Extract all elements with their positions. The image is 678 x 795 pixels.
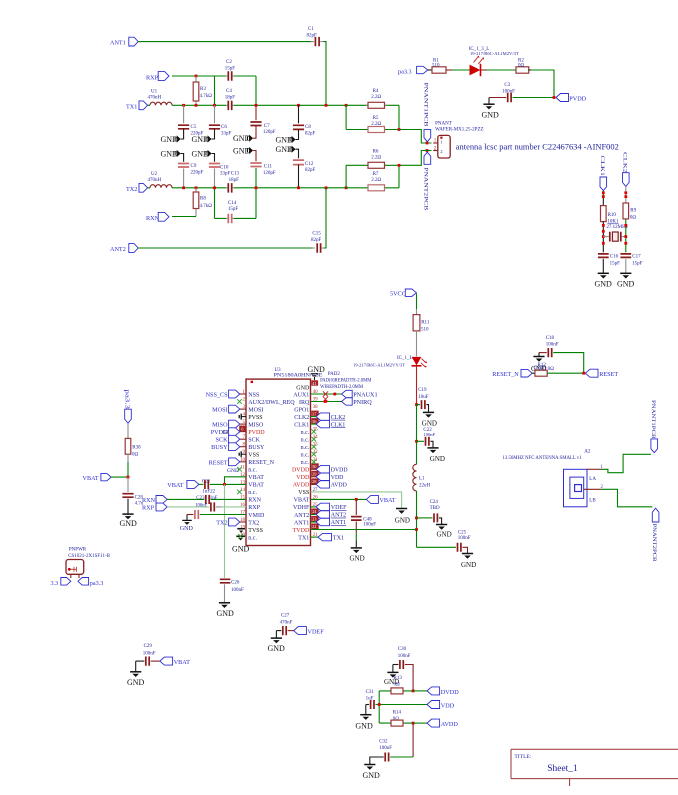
svg-text:1uF: 1uF (366, 696, 374, 701)
ground C31 (355, 705, 373, 731)
svg-text:100nF: 100nF (363, 523, 376, 528)
ground C7 (233, 134, 253, 143)
svg-text:C5: C5 (191, 125, 197, 130)
port ANT2 (110, 244, 138, 253)
svg-text:U2: U2 (151, 172, 158, 177)
capacitor C17 15pF (620, 254, 642, 273)
wire ANT1 stub (311, 521, 317, 523)
ground C8 (276, 135, 296, 144)
wire antenna pin2 to PNANT2PCB (601, 489, 652, 507)
svg-text:ANT1: ANT1 (110, 40, 126, 47)
svg-text:VDEF: VDEF (331, 505, 347, 511)
ground C18 (531, 353, 546, 373)
svg-text:WIREPADTH-2.0MM: WIREPADTH-2.0MM (320, 385, 364, 390)
port PNANT2PCB right (vertical) (651, 508, 659, 562)
port pa3.3 (jumper out) (78, 578, 103, 587)
port VBAT bottom (160, 657, 190, 666)
ground pin 11 (227, 467, 242, 474)
wire R38 to VBAT node (127, 454, 129, 477)
svg-text:120pF: 120pF (263, 171, 276, 176)
svg-text:C23: C23 (196, 496, 205, 501)
junction PVDD node (553, 96, 556, 99)
svg-text:TVDD: TVDD (293, 528, 310, 534)
pin 22 TVDD (293, 524, 319, 534)
svg-text:R14: R14 (393, 711, 402, 716)
svg-text:15pF: 15pF (632, 261, 643, 266)
junction dots TX1 line (182, 104, 347, 107)
svg-text:C8: C8 (305, 125, 311, 130)
svg-text:0Ω: 0Ω (630, 216, 637, 221)
svg-text:4.7u: 4.7u (135, 502, 144, 507)
svg-text:82pF: 82pF (305, 131, 316, 136)
resistor R10 (601, 206, 620, 225)
svg-text:GND: GND (296, 386, 310, 392)
connector PNANT WAFER-MX1.25-2PZZ (435, 122, 483, 158)
junction DVDD node (412, 690, 415, 693)
svg-text:470nH: 470nH (148, 96, 162, 101)
svg-text:TVSS: TVSS (248, 528, 263, 534)
svg-text:15pF: 15pF (228, 207, 239, 212)
port MOSI (212, 405, 240, 413)
wire CLK2 stub (311, 416, 317, 418)
ground pin 19 TVSS (237, 529, 245, 533)
svg-text:100nF: 100nF (231, 588, 244, 593)
svg-text:470nH: 470nH (148, 178, 162, 183)
svg-text:R12: R12 (538, 363, 547, 368)
svg-text:PVDD: PVDD (211, 429, 228, 436)
pin 2 (433, 147, 438, 152)
junction R5 right (398, 128, 401, 131)
svg-text:DVDD: DVDD (331, 468, 348, 474)
svg-text:AVDD: AVDD (441, 721, 459, 728)
wire R5 node to connector pin1 (399, 130, 432, 144)
svg-text:GND: GND (180, 526, 194, 532)
port VDEF bottom (294, 627, 325, 636)
ground C26 (217, 603, 235, 618)
svg-text:C2: C2 (226, 60, 232, 65)
capacitor C25 100nF (458, 531, 471, 553)
svg-text:C4: C4 (226, 89, 232, 94)
wire pa3.3 to R38 (127, 423, 129, 438)
port DVDD bottom (427, 687, 459, 696)
junction dots CLK1 column (602, 224, 605, 245)
capacitor C22 100nF (417, 428, 436, 447)
svg-text:L1: L1 (419, 477, 425, 482)
svg-text:33pF: 33pF (220, 172, 231, 177)
svg-text:n.c.: n.c. (248, 490, 257, 496)
capacitor C21 1nF (199, 479, 246, 494)
svg-text:C32: C32 (379, 740, 388, 745)
wire AVDD stub (311, 483, 317, 485)
svg-text:R7: R7 (373, 172, 379, 177)
svg-text:0Ω: 0Ω (394, 682, 401, 687)
pin 5 MISO (240, 420, 264, 428)
svg-text:C24: C24 (430, 500, 439, 505)
port VBAT right (366, 495, 395, 504)
svg-text:GPO1: GPO1 (294, 407, 309, 413)
junction C48 top (355, 498, 358, 501)
svg-text:VBAT: VBAT (248, 475, 264, 481)
svg-text:RXP: RXP (146, 74, 159, 81)
junction dots CLK1 top (602, 191, 605, 198)
svg-text:n.c.: n.c. (248, 535, 257, 541)
pin 8 BUSY (240, 443, 265, 451)
wire VBAT vertical to C26 (224, 484, 226, 578)
svg-text:1nF22: 1nF22 (202, 489, 215, 494)
wire C1 to TX1 line (324, 42, 327, 106)
resistor R7 2.2 (346, 172, 399, 191)
svg-text:C13: C13 (231, 172, 240, 177)
LED IC_1_3_L 19-217/R6C-AL1M2V/3T (469, 47, 519, 76)
pin 17 VMID (240, 511, 265, 519)
port RXN (row15) (142, 496, 167, 505)
port PNIRQ (342, 398, 373, 406)
svg-text:GND: GND (127, 678, 145, 687)
svg-text:0Ω: 0Ω (132, 452, 139, 457)
wire ANT2 stub (311, 514, 317, 516)
wire 5VCC to R11 (416, 294, 418, 315)
wire VDEF stub (311, 506, 317, 508)
ground C22 (427, 448, 445, 463)
no-connect pin 33 (312, 444, 317, 449)
svg-text:0Ω: 0Ω (518, 64, 525, 69)
pin 41 PAD with ground (296, 365, 325, 392)
svg-text:SCK: SCK (248, 438, 260, 444)
svg-text:100nF: 100nF (195, 503, 207, 508)
wire VBAT port to node (111, 476, 128, 478)
svg-text:VBAT: VBAT (294, 498, 310, 504)
pin 16 RXP (240, 503, 261, 511)
pin 37 CLK2 (294, 411, 318, 421)
svg-text:18pF: 18pF (229, 178, 240, 183)
capacitor C31 1uF (366, 690, 427, 709)
svg-text:15pF: 15pF (225, 67, 236, 72)
svg-text:C29: C29 (144, 644, 153, 649)
wire DVDD stub (311, 468, 317, 470)
capacitor C2 15pF (215, 60, 257, 105)
svg-text:RESET_N: RESET_N (492, 371, 519, 378)
svg-text:LB: LB (589, 498, 596, 503)
svg-text:ANT1: ANT1 (294, 520, 309, 526)
resistor R12 0ohm (532, 363, 554, 376)
svg-text:82pF: 82pF (311, 238, 322, 243)
svg-text:C18: C18 (546, 336, 555, 341)
port PNANT2PCB (vertical) (423, 152, 431, 211)
svg-text:100nF: 100nF (546, 343, 559, 348)
svg-text:C9: C9 (191, 164, 197, 169)
svg-text:n.c.: n.c. (301, 445, 310, 451)
svg-text:100nF: 100nF (423, 432, 435, 437)
wire VSS pin27 to ground (311, 492, 402, 508)
pin 6 PVDD (239, 426, 265, 436)
no-connect pin 34 (312, 437, 317, 442)
junction VDD node (378, 703, 381, 706)
ground C30 (384, 665, 399, 687)
capacitor C19 10uF (417, 388, 429, 412)
svg-text:A2: A2 (584, 450, 591, 455)
wire TX1 stub (311, 536, 319, 538)
label PAD2 texts (320, 372, 372, 390)
svg-text:PNPWR: PNPWR (69, 547, 87, 552)
svg-text:RXN: RXN (142, 497, 156, 504)
pin 26 VBAT (294, 495, 318, 503)
port ANT2 (316, 511, 346, 519)
port ANT1 (110, 37, 138, 46)
pin 36 CLK1 (294, 418, 318, 428)
svg-text:IRQ: IRQ (299, 400, 310, 406)
ground C17 (617, 273, 635, 288)
svg-text:BUSY: BUSY (211, 444, 228, 451)
port CLK1 (vertical) (599, 156, 606, 191)
wire L1 column bottom to C25 (417, 546, 457, 548)
port pa3.3 (vertical) (124, 389, 132, 423)
port RESET (585, 369, 618, 378)
port PNAUX1 (342, 390, 378, 398)
svg-text:C30: C30 (398, 647, 407, 652)
wire pin12 VBAT elbow (225, 477, 247, 485)
svg-text:RESET: RESET (209, 459, 228, 466)
svg-text:PNANT: PNANT (435, 122, 452, 127)
svg-text:VSS: VSS (248, 453, 259, 459)
port ANT1 (316, 518, 346, 526)
pin 28 AVDD (293, 478, 319, 488)
resistor R14 0ohm (379, 711, 413, 726)
pin 7 SCK (240, 435, 261, 443)
junction TVDD column (415, 528, 418, 531)
svg-text:CS1021-2X1SF11-B: CS1021-2X1SF11-B (68, 554, 110, 559)
port PNANT1PCB right (vertical) (650, 400, 657, 453)
svg-text:MISO: MISO (248, 422, 264, 428)
svg-text:R4: R4 (373, 89, 379, 94)
svg-text:TX2: TX2 (216, 520, 227, 527)
capacitor C9 220pF (178, 154, 204, 188)
svg-text:C10: C10 (220, 165, 229, 170)
inductor L1 22uH (413, 464, 431, 491)
pin 10 RESET_N (240, 458, 275, 466)
port DVDD (316, 466, 348, 474)
svg-text:antenna lcsc part number C2246: antenna lcsc part number C22467634 -AINF… (456, 143, 619, 152)
port VDD bottom (427, 701, 455, 710)
svg-text:0Ω: 0Ω (548, 367, 555, 372)
wire C15 to TX2 line (324, 188, 326, 248)
svg-text:GND: GND (395, 516, 410, 524)
svg-text:TBD: TBD (430, 506, 440, 511)
wire to L1 (416, 441, 418, 464)
capacitor C8 82pF (293, 105, 316, 139)
capacitor C5 220pF (178, 105, 204, 139)
no-connect X AUX1 (323, 391, 328, 396)
LED IC_1_L 19-217/R6C-AL1M2VY/3T (353, 356, 427, 368)
svg-text:RXP: RXP (248, 505, 260, 511)
note antenna lcsc part number (456, 143, 619, 152)
capacitor C22b 100nF (RXP series) (167, 502, 246, 511)
title block frame (511, 749, 678, 786)
svg-text:VBAT: VBAT (83, 475, 99, 482)
resistor R38 0ohm (125, 438, 141, 457)
port RXP (row16) (142, 503, 167, 512)
svg-text:DVDD: DVDD (292, 468, 310, 474)
port RESET (209, 458, 240, 466)
svg-text:PNAUX1: PNAUX1 (353, 391, 377, 398)
ground C32 (363, 765, 381, 781)
capacitor C13 18pF (226, 172, 240, 193)
svg-text:AUX2/DWL_REQ: AUX2/DWL_REQ (248, 400, 295, 406)
capacitor C4 18pF (225, 89, 236, 110)
ground pin 4 PVSS (239, 414, 246, 420)
svg-text:C17: C17 (632, 254, 641, 259)
svg-text:CLK2: CLK2 (621, 152, 626, 174)
svg-text:TX2: TX2 (126, 186, 137, 193)
svg-text:MISO: MISO (212, 422, 228, 429)
svg-text:GND: GND (268, 644, 286, 653)
svg-text:510: 510 (421, 328, 429, 333)
pin 33 n.c. (301, 443, 318, 451)
pin 2 AUX2/DWL_REQ (243, 398, 296, 406)
no-connect pin 32 (312, 452, 317, 457)
svg-text:TX1: TX1 (333, 534, 344, 541)
svg-text:1nF: 1nF (210, 496, 218, 501)
capacitor C14 15pF (215, 188, 257, 223)
ground C10 (192, 149, 212, 158)
capacitor C6 33pF (209, 105, 232, 139)
svg-text:SCK: SCK (216, 437, 229, 444)
ground C9 (161, 149, 181, 158)
svg-text:GND: GND (232, 545, 250, 554)
svg-text:AUX1: AUX1 (293, 392, 309, 398)
junction R6 right (398, 164, 401, 167)
svg-text:R3: R3 (200, 87, 206, 92)
ground C27 (268, 631, 286, 653)
svg-text:100nF: 100nF (379, 746, 392, 751)
svg-text:GND: GND (482, 111, 500, 120)
junction RESET node (582, 372, 585, 375)
pin 2 antenna (584, 485, 604, 490)
capacitor C32 100nF (370, 723, 413, 764)
capacitor C7 120pF (250, 105, 276, 138)
port RXN (146, 212, 196, 222)
no-connect pin 31 (312, 460, 317, 465)
svg-text:VBAT: VBAT (167, 482, 183, 489)
svg-text:BUSY: BUSY (248, 445, 265, 451)
no-connect X IRQ (323, 397, 328, 402)
svg-text:AVDD: AVDD (293, 483, 310, 489)
wire pa3.3 to R1 (428, 69, 432, 71)
junction pin1 (426, 142, 429, 145)
svg-text:C7: C7 (264, 124, 270, 129)
svg-text:MOSI: MOSI (248, 407, 263, 413)
wire CLK1 column (602, 191, 604, 206)
resistor R11 510 (413, 315, 430, 333)
svg-text:R38: R38 (132, 445, 141, 450)
svg-text:n.c.: n.c. (248, 468, 257, 474)
junction dots TX2 line (182, 186, 347, 189)
svg-text:120pF: 120pF (263, 130, 276, 135)
svg-text:NSS: NSS (248, 392, 259, 398)
capacitor C18 100nF (539, 336, 584, 373)
svg-text:U3: U3 (275, 368, 282, 373)
svg-text:C12: C12 (305, 162, 314, 167)
capacitor C10 33pF (209, 154, 231, 188)
pin 31 n.c. (301, 458, 318, 466)
svg-text:GND: GND (461, 561, 476, 569)
port AVDD bottom (427, 719, 458, 728)
svg-text:C21: C21 (202, 479, 211, 484)
port SCK (216, 435, 240, 443)
resistor R1 510 (432, 59, 446, 74)
svg-text:C3: C3 (504, 83, 510, 88)
port pa3.3 (398, 66, 428, 75)
svg-text:R5: R5 (373, 116, 379, 121)
svg-text:PVDD: PVDD (569, 95, 586, 102)
svg-text:ANT2: ANT2 (110, 246, 126, 253)
svg-text:C19: C19 (418, 388, 427, 393)
pin 21 TX1 (298, 533, 318, 541)
junction pin2 (426, 149, 429, 152)
wire VBAT pin26 (311, 498, 367, 500)
pin 1 antenna (587, 465, 604, 470)
svg-text:GND: GND (422, 420, 437, 428)
svg-text:VBAT: VBAT (248, 483, 264, 489)
ground pin 20 n.c. (236, 534, 245, 541)
pin 20 n.c. (240, 533, 257, 541)
capacitor C48 100nF (351, 499, 376, 547)
ground C29 (127, 661, 145, 687)
svg-text:VDHF: VDHF (293, 505, 310, 511)
ground VSS (395, 509, 410, 525)
svg-text:PNANT1PCB: PNANT1PCB (650, 400, 655, 439)
svg-text:2.2Ω: 2.2Ω (371, 156, 381, 161)
wire VDD stub (311, 476, 317, 478)
svg-text:VDD: VDD (296, 475, 310, 481)
svg-text:10K1: 10K1 (607, 220, 619, 225)
svg-text:100nF: 100nF (502, 90, 515, 95)
svg-text:VDD: VDD (441, 703, 455, 710)
port TX1 (318, 533, 344, 541)
op-amp U3 chip body (246, 368, 323, 545)
pin 35 n.c. (301, 428, 318, 436)
svg-text:PNANT2PCB: PNANT2PCB (423, 167, 428, 211)
wire L1 down (416, 491, 418, 547)
port PVDD (211, 428, 240, 436)
svg-text:AVDD: AVDD (331, 483, 347, 489)
svg-text:n.c.: n.c. (301, 438, 310, 444)
svg-text:R8: R8 (200, 197, 206, 202)
svg-text:C27: C27 (281, 614, 290, 619)
svg-text:2.2Ω: 2.2Ω (371, 178, 381, 183)
svg-text:Sheet_1: Sheet_1 (547, 764, 578, 774)
port 3.3 (51, 578, 71, 587)
pin 1 NSS (240, 390, 260, 398)
resistor R13 0ohm (379, 676, 413, 694)
resistor R5 2.2 (346, 105, 399, 132)
ground C24 (436, 525, 452, 539)
svg-text:VDD: VDD (331, 475, 344, 481)
ground C11 (233, 146, 253, 155)
pin 19 TVSS (240, 526, 263, 534)
capacitor C29 100nF (136, 644, 160, 666)
svg-text:GND: GND (617, 279, 635, 288)
svg-text:CLK2: CLK2 (331, 415, 346, 421)
svg-text:18pF: 18pF (225, 96, 236, 101)
svg-text:CLK2: CLK2 (294, 415, 309, 421)
antenna A2 13.56MHZ NFC ANTENNA SMALL v1 (503, 450, 597, 507)
ground C3 (482, 98, 500, 120)
port VDD (316, 473, 343, 481)
port AVDD (316, 481, 347, 489)
svg-text:R6: R6 (373, 150, 379, 155)
port PVDD (556, 94, 587, 103)
svg-text:2: 2 (243, 398, 246, 403)
